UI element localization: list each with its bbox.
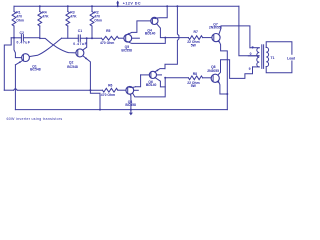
wire Q8 collector to transformer bottom terminal	[218, 60, 252, 79]
svg-text:BD140: BD140	[146, 83, 157, 87]
wire Q2 emitter to bottom rail	[90, 90, 100, 109]
wire R4 to Q2 base diagonal	[40, 38, 76, 52]
ground symbol	[130, 110, 132, 113]
wire Q4 emitter to +12V rail	[152, 6, 167, 18]
svg-text:5W: 5W	[191, 43, 197, 47]
svg-text:R8: R8	[193, 72, 197, 76]
svg-text:2N3055: 2N3055	[207, 69, 219, 73]
wire Q1 base from R1 column	[14, 38, 22, 58]
svg-text:BC548: BC548	[67, 65, 78, 69]
transistor Q8	[211, 74, 219, 82]
resistor R4	[39, 6, 41, 11]
svg-text:Q2: Q2	[69, 60, 74, 64]
svg-text:Ohm: Ohm	[94, 18, 102, 22]
svg-text:T1: T1	[271, 56, 275, 60]
svg-text:2N3055: 2N3055	[209, 26, 221, 30]
wire Q8 emitter to ground	[218, 81, 227, 94]
svg-text:9: 9	[249, 67, 251, 71]
svg-text:BC558: BC558	[125, 103, 136, 107]
transistor Q1	[22, 54, 30, 62]
svg-text:BC548: BC548	[30, 68, 41, 72]
wire lower bus to Q3 base	[118, 89, 126, 91]
transistor Q4	[151, 17, 158, 24]
svg-text:C1: C1	[78, 29, 82, 33]
resistor R2	[91, 6, 93, 11]
resistor R8	[188, 76, 202, 80]
svg-text:0.47uF: 0.47uF	[73, 42, 87, 46]
svg-text:47K: 47K	[70, 15, 77, 19]
wire Q6 emitter staircase to +12V branch	[155, 69, 165, 73]
svg-text:+12V DC: +12V DC	[123, 1, 141, 5]
capacitor C1	[62, 37, 79, 39]
+12V arrow head	[116, 1, 119, 4]
wire Q5 collector line to driver output node	[126, 38, 166, 44]
wire Q2 collector to R2/C1/R5 node	[83, 38, 87, 50]
capacitor C2	[14, 37, 21, 39]
svg-text:0.47uF: 0.47uF	[17, 41, 31, 45]
wire Q2 emitter down	[83, 56, 91, 90]
wire R8 node to R8	[165, 77, 188, 79]
svg-text:BC558: BC558	[121, 49, 132, 53]
svg-text:R7: R7	[194, 30, 198, 34]
svg-text:470 Ohm: 470 Ohm	[100, 41, 114, 45]
wire secondary to load top	[266, 42, 292, 54]
transistor Q5	[124, 34, 132, 42]
transformer T1 secondary winding	[266, 47, 268, 66]
transistor Q6	[149, 71, 156, 78]
resistor R7	[188, 36, 202, 40]
svg-text:0: 0	[250, 52, 252, 56]
svg-text:C2: C2	[20, 31, 24, 35]
svg-text:Load: Load	[287, 57, 295, 61]
resistor R3	[67, 6, 69, 11]
svg-text:Ohm: Ohm	[16, 18, 24, 22]
svg-text:R6: R6	[108, 84, 112, 88]
wire secondary to load bottom	[266, 61, 292, 73]
junction dots	[39, 5, 41, 7]
transformer T1 core	[261, 45, 263, 69]
wire outer left loop to lower bus	[11, 37, 14, 39]
node +12V DC supply pin	[117, 2, 119, 6]
wire Q3 emitter diag up to Q6 base line	[128, 86, 136, 89]
resistor R6	[103, 88, 118, 92]
transistor Q2	[76, 49, 84, 57]
svg-text:9: 9	[252, 46, 254, 50]
svg-text:5W: 5W	[191, 84, 197, 88]
svg-text:470 Ohm: 470 Ohm	[101, 93, 115, 97]
transformer T1 primary winding	[250, 47, 259, 49]
svg-text:60W inverter using transistors: 60W inverter using transistors	[7, 117, 63, 121]
wire Q3 collector line up to R8 node	[133, 78, 166, 97]
wire rail branch to driver emitters	[165, 6, 179, 68]
svg-text:BD140: BD140	[145, 31, 156, 35]
svg-text:R5: R5	[106, 29, 110, 33]
wire lower bus with hop over Q1 emitter	[4, 89, 13, 91]
transistor Q7	[212, 34, 220, 42]
wire Q6 collector detour	[155, 78, 165, 87]
wire C1 to Q1 diagonal	[30, 38, 62, 56]
resistor R5	[102, 36, 119, 40]
wire Q4 collector to output node	[156, 23, 165, 37]
wire Q6 collector stub	[157, 74, 162, 76]
resistor R1	[13, 6, 15, 11]
wire Q6 base down to Q3	[136, 75, 141, 87]
wire bottom rail	[15, 109, 227, 111]
svg-text:47K: 47K	[42, 15, 49, 19]
wire driver output to R7	[165, 37, 188, 39]
wire +12V top rail	[14, 5, 239, 7]
wire Q3 collector stub	[134, 89, 139, 91]
wire Q7 collector to transformer top terminal	[219, 26, 250, 48]
wire Q5 emitter up to Q4 base	[126, 21, 151, 36]
wire Q5 collector stub	[132, 37, 140, 39]
wire Q1 emitter down to bottom rail	[14, 65, 16, 110]
wire Q7 emitter to ground	[219, 41, 227, 110]
transistor Q3	[126, 86, 134, 94]
wire rail corner down to transformer center tap	[239, 6, 259, 56]
wire Q3 emitter to ground	[130, 94, 131, 109]
